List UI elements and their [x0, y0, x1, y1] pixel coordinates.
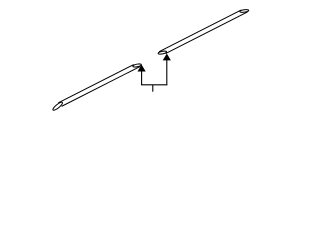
- right rod outer end cap: [240, 9, 249, 12]
- right current arrow (up): [163, 54, 171, 61]
- right feed wire (vertical): [166, 60, 168, 85]
- right rod inner end cap: [158, 51, 167, 55]
- feed cross wire (horizontal): [141, 84, 167, 86]
- left rod inner end cap: [133, 63, 142, 67]
- left current arrow (up): [138, 65, 146, 72]
- feed stub (down): [152, 85, 154, 92]
- left dipole arm (rod): [51, 61, 143, 112]
- left rod outer end cap: [52, 101, 64, 111]
- left feed wire (vertical): [141, 71, 143, 85]
- right dipole arm (rod): [157, 7, 249, 58]
